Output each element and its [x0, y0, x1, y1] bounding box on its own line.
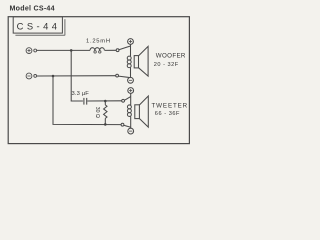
node: junction on plus wire: [70, 49, 73, 52]
svg-text:66 - 36F: 66 - 36F: [155, 111, 180, 117]
model label box CS-44: [13, 17, 65, 36]
capacitor C1 3.3uF: [84, 98, 87, 105]
svg-text:20 - 32F: 20 - 32F: [154, 62, 179, 68]
wire: inductor to woofer plus: [105, 49, 117, 51]
input terminal plus: [26, 48, 36, 54]
wire: vertical plus branch to capacitor: [71, 50, 83, 101]
node: tweeter plus terminal circle: [122, 99, 125, 102]
wire: minus input to woofer minus: [37, 75, 116, 77]
svg-text:WOOFER: WOOFER: [156, 52, 186, 59]
node: tweeter minus terminal circle: [121, 123, 124, 126]
node: woofer minus terminal circle: [116, 74, 119, 77]
wire: plus input to inductor: [37, 49, 90, 51]
node: junction on minus wire: [52, 75, 55, 78]
input terminal minus: [26, 73, 36, 79]
wire: diagonal to woofer stem: [119, 46, 131, 50]
wire: diagonal to tweeter stem: [124, 97, 130, 101]
node: junction resistor bottom: [104, 123, 107, 126]
svg-text:Model CS-44: Model CS-44: [10, 5, 55, 13]
resistor R1 30ohm: [104, 101, 107, 124]
tweeter SP2: [127, 88, 148, 134]
wire: capacitor to tweeter plus: [87, 100, 121, 102]
wire: diagonal to tweeter minus stem: [124, 125, 131, 127]
svg-text:CS-44: CS-44: [17, 20, 61, 31]
svg-text:TWEETER: TWEETER: [152, 102, 189, 109]
wire: minus branch down and across to tweeter: [53, 76, 121, 125]
wire: diagonal to woofer minus stem: [118, 76, 130, 78]
node: junction capacitor-resistor: [104, 100, 107, 103]
schematic border frame: [8, 17, 189, 144]
inductor L1 1.25mH: [90, 48, 104, 53]
node: woofer plus terminal circle: [116, 49, 119, 52]
svg-text:1.25mH: 1.25mH: [86, 38, 111, 44]
svg-text:30 Ω: 30 Ω: [94, 107, 100, 118]
svg-text:3.3 µF: 3.3 µF: [72, 91, 90, 97]
woofer SP1: [127, 39, 148, 84]
